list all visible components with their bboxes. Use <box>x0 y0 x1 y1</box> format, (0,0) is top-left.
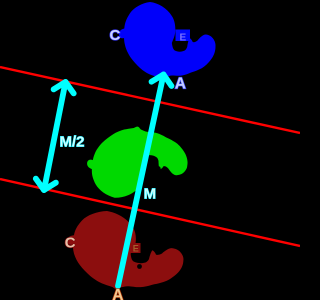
molecule blue (top) <box>119 2 216 80</box>
svg-text:C: C <box>65 235 76 252</box>
svg-text:A: A <box>175 76 186 93</box>
curl hole of green molecule <box>156 166 160 170</box>
arrow M (from A of dark red to A of blue) <box>118 75 172 287</box>
label E box (dark red molecule) <box>131 243 141 253</box>
double-headed arrow M/2 <box>36 82 74 190</box>
label E box (blue molecule) <box>176 30 191 42</box>
svg-text:M/2: M/2 <box>60 134 85 151</box>
svg-text:E: E <box>180 33 187 44</box>
red line 2 (lower lattice line) <box>0 179 300 246</box>
svg-text:C: C <box>110 27 121 44</box>
molecule dark red (bottom) <box>64 208 187 294</box>
svg-text:A: A <box>112 287 123 300</box>
red line 1 (upper lattice line) <box>0 67 300 133</box>
molecule green (middle, mirrored) <box>83 120 192 207</box>
svg-text:E: E <box>133 244 139 254</box>
curl hole of dark red molecule <box>137 264 142 269</box>
svg-text:M: M <box>144 186 157 203</box>
